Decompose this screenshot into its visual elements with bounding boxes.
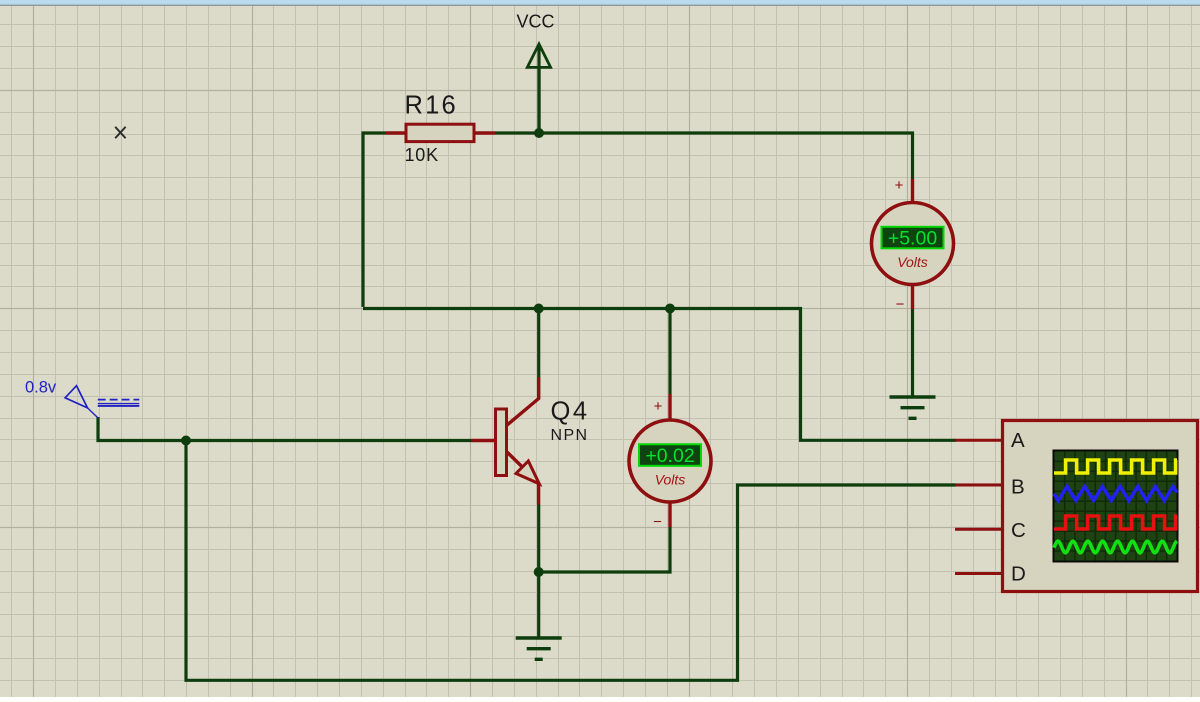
trace A yellow square (1054, 460, 1177, 473)
svg-text:+: + (895, 177, 904, 194)
svg-text:R16: R16 (405, 92, 458, 120)
svg-text:−: − (896, 296, 905, 313)
svg-text:10K: 10K (405, 145, 439, 165)
wire emitter to ground (537, 505, 540, 639)
svg-text:0.8v: 0.8v (25, 379, 57, 397)
oscilloscope (955, 421, 1198, 592)
wire base input (98, 417, 472, 441)
svg-text:A: A (1011, 429, 1025, 452)
trace D green sine (1054, 541, 1177, 553)
wire top rail left to resistor (363, 133, 386, 307)
wire VM2 top (668, 309, 671, 395)
wire resistor to voltmeter VM1 corner (496, 133, 913, 179)
voltmeter VM1 +5.00 (872, 177, 954, 313)
svg-text:−: − (653, 514, 662, 531)
power VCC (516, 12, 554, 134)
resistor R16 (386, 92, 496, 142)
voltmeter VM2 +0.02 (629, 394, 711, 531)
svg-text:+: + (654, 398, 663, 415)
wire VCC to top rail (537, 68, 540, 133)
junction top rail (534, 128, 544, 138)
wire middle rail (363, 309, 956, 441)
DC source 0.8v (25, 379, 139, 418)
svg-text:+5.00: +5.00 (888, 227, 937, 249)
ground (VM1) (890, 397, 936, 418)
wire VM2 bottom to emitter junction (539, 527, 670, 572)
trace C red square (1054, 516, 1177, 529)
svg-text:B: B (1011, 476, 1025, 499)
junction VM2 (665, 304, 675, 314)
wire feedback bottom loop (186, 441, 956, 681)
svg-text:VCC: VCC (516, 12, 554, 32)
svg-text:Volts: Volts (655, 472, 686, 488)
svg-text:NPN: NPN (551, 427, 589, 444)
svg-text:Volts: Volts (897, 254, 928, 270)
svg-text:Q4: Q4 (551, 398, 590, 426)
scope screen (1053, 450, 1179, 563)
svg-text:+0.02: +0.02 (645, 445, 694, 467)
junction collector (534, 304, 544, 314)
junction base (181, 436, 191, 446)
junction emitter (534, 567, 544, 577)
trace B blue triangle (1054, 487, 1177, 501)
ground (emitter) (516, 638, 562, 659)
svg-text:D: D (1011, 563, 1026, 586)
origin marker (115, 127, 125, 138)
svg-text:C: C (1011, 519, 1026, 542)
wire VM1 bottom to ground (911, 309, 914, 397)
transistor Q4 (472, 377, 590, 505)
wire collector drop (537, 309, 540, 379)
